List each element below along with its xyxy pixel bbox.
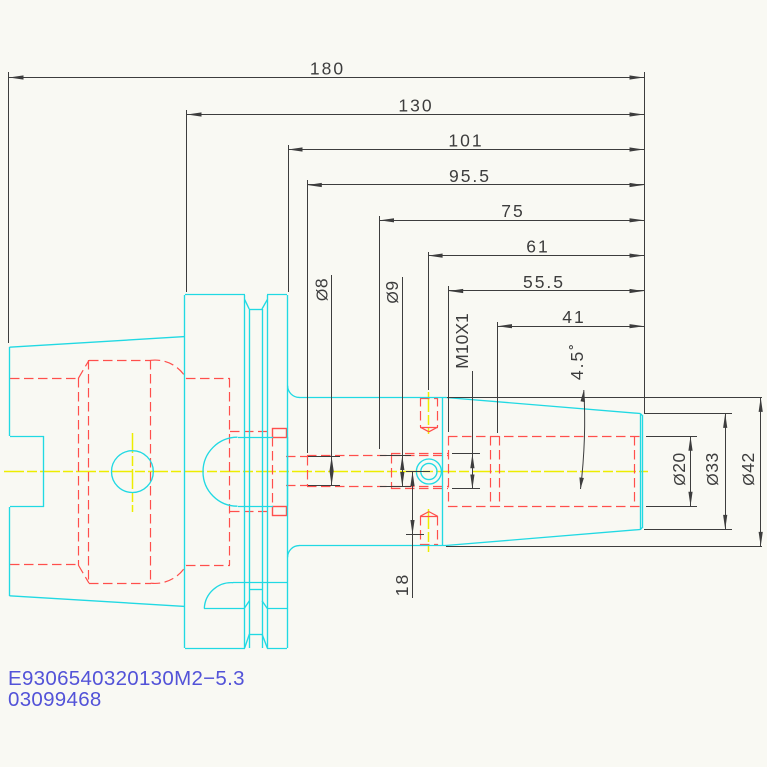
svg-text:41: 41	[562, 307, 585, 327]
svg-text:M10X1: M10X1	[452, 313, 472, 368]
svg-text:Ø9: Ø9	[382, 280, 402, 303]
svg-text:Ø8: Ø8	[312, 278, 332, 301]
svg-text:101: 101	[448, 130, 483, 150]
svg-text:4.5˚: 4.5˚	[567, 342, 587, 380]
svg-text:75: 75	[501, 201, 524, 221]
svg-text:61: 61	[526, 236, 549, 256]
svg-text:03099468: 03099468	[8, 688, 102, 711]
svg-text:130: 130	[398, 95, 433, 115]
svg-text:180: 180	[310, 58, 345, 78]
svg-text:Ø42: Ø42	[738, 452, 758, 485]
svg-text:E9306540320130M2−5.3: E9306540320130M2−5.3	[8, 667, 245, 690]
svg-text:55.5: 55.5	[523, 272, 565, 292]
svg-text:95.5: 95.5	[449, 166, 491, 186]
svg-text:Ø33: Ø33	[702, 452, 722, 485]
svg-text:18: 18	[392, 573, 412, 596]
svg-text:Ø20: Ø20	[669, 452, 689, 485]
